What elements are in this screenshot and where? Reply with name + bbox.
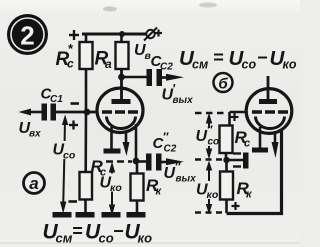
label Uvx [19,120,42,140]
svg-text:со: со [242,58,257,72]
dashed line node level b [195,158,222,160]
dashed line cathode node level [106,160,132,163]
capacitor Cc2'' [146,154,162,171]
cathode current arrow V1 [123,132,130,156]
anode stub V2 [267,76,270,100]
cathode arc V1 [107,117,136,129]
wire anode node to Cc2 [122,76,147,79]
svg-text:С1: С1 [50,94,63,105]
plus sign bottom of Rk b [232,202,240,210]
paper smudge top right [199,3,217,8]
voltage arrow Uko left [109,162,115,216]
svg-text:вх: вх [29,129,41,140]
wire top supply rail [82,33,146,36]
svg-text:см: см [56,231,73,246]
label Rk left [146,176,163,198]
svg-text:=: = [213,48,224,68]
grid V1 (dashed) [102,110,140,113]
wire grid node down to Rc b [228,112,231,126]
label Cc2'' [153,130,177,155]
grid lead V2 [230,111,247,114]
resistor Rc b [220,126,233,161]
resistor Rc (grid leak lower) [80,112,93,212]
label U''so [196,123,220,148]
svg-text:−: − [257,48,268,68]
label Uko b [196,182,219,202]
input arrow Uvx [19,109,42,116]
resistor Rc* (grid resistor to +rail) [80,34,93,112]
svg-text:вых: вых [176,174,197,185]
resistor Rk b [220,160,233,213]
junction dot top rail at Ra [119,31,125,37]
ground Rc [76,212,95,218]
label Rc b [235,128,251,150]
cathode arc V2 [256,117,285,129]
label Cc1 [41,86,64,106]
svg-text:а: а [105,57,112,71]
svg-text:С2: С2 [164,144,177,155]
figure number badge 2 [7,14,48,55]
label Ra [95,49,113,72]
minus sign near Uso ground [69,200,78,203]
grid V2 (dashed) [252,110,288,113]
svg-text:=: = [72,221,83,241]
anode plate V2 [259,99,277,104]
label Rc* [56,41,75,71]
cathode tap bar b [243,153,249,169]
dashed line bottom level b [195,211,222,213]
minus sign above grid wire [71,102,80,105]
svg-text:ко: ко [110,182,122,194]
label Cc2 [151,53,174,73]
circled letter a [24,173,45,194]
plus sign below grid wire [69,121,78,130]
cathode lead V1 to Rk node [135,124,138,161]
anode plate V1 [112,99,131,104]
svg-text:см: см [192,58,208,72]
output arrow U'vyh top [162,74,184,81]
label U'vyh [162,81,194,106]
plus sign supply left [69,30,79,40]
label Rk b [237,179,254,201]
plus sign at terminal [155,30,162,37]
equation bottom Usm=Uso-Uko [43,221,153,246]
svg-text:ко: ко [207,189,219,201]
label U''vyh [164,160,197,185]
minus sign above node b [233,152,241,154]
svg-text:−: − [113,221,124,241]
equation top Usm = Uso - Uko [179,47,297,72]
svg-text:со: со [208,137,220,148]
junction dot anode node [118,74,125,81]
circled letter b [214,73,233,93]
label Ub [134,42,152,62]
wire input to grid [56,111,97,114]
minus sign below node b [233,165,241,167]
capacitor Cc1 [42,104,57,121]
dashed grid level line b [195,112,228,114]
label Uso [53,142,76,162]
svg-text:С2: С2 [160,62,173,73]
svg-text:2: 2 [20,21,34,51]
label Rc lower [91,157,107,179]
cathode heater lead V1 [104,127,121,154]
svg-text:а: а [29,174,38,193]
junction dot Rc-Rk node b [223,157,229,163]
resistor Ra (anode load) [116,34,129,100]
cathode heater lead V2 [252,127,268,153]
triode tube V2 envelope [246,89,292,134]
output arrow U''vyh bottom [162,158,185,165]
svg-text:с: с [244,138,250,150]
voltage arrow Uko b [206,161,212,215]
junction dot cathode node [133,158,140,165]
svg-text:вых: вых [173,95,194,106]
cathode current arrow V2 [272,131,279,158]
voltage arrow Uso [60,115,68,214]
paper streak bottom [0,243,300,244]
terminal Ub circle with slash [144,28,157,41]
junction dot grid node [84,109,91,116]
resistor Rk left [131,161,144,212]
svg-text:с: с [67,57,74,71]
triode tube V1 envelope [97,88,143,132]
capacitor Cc2 [147,69,163,86]
label Uko left [100,175,123,195]
paper smudge top center [103,7,117,12]
svg-text:со: со [99,231,114,246]
ground bar under Uso arrow [53,212,72,218]
svg-text:ко: ко [283,58,297,72]
wire node b to cathode tap bar [227,159,244,162]
ground bar under Uko arrow [102,212,121,218]
wire bottom return b [227,131,282,214]
wire cathode node to Cc2'' [136,160,146,163]
voltage arrow U''so [206,113,212,160]
svg-text:со: со [63,150,76,162]
svg-text:ко: ко [138,231,153,246]
ground Rk left [127,212,146,218]
plus sign top of Rc b [231,113,239,121]
svg-text:б: б [218,76,228,93]
